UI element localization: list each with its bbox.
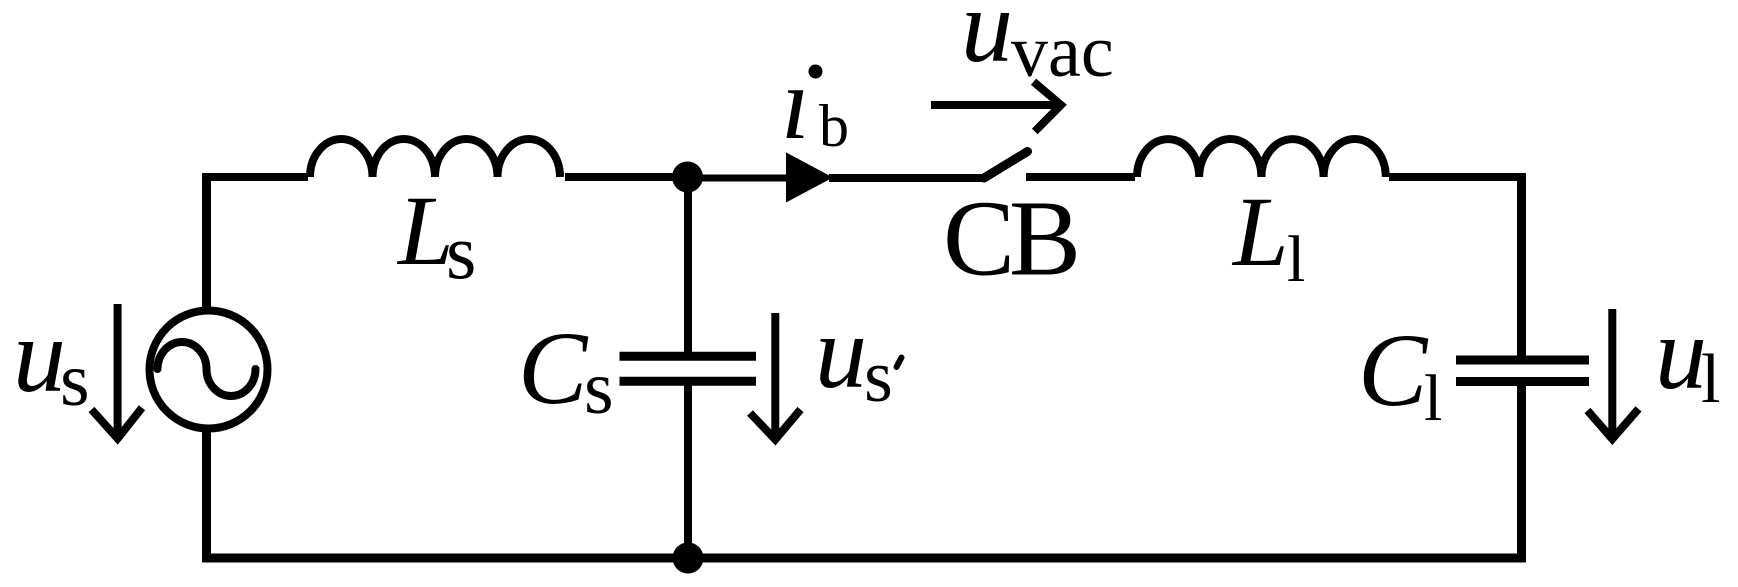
svg-text:u: u [13, 297, 66, 414]
wire from node to current arrow [687, 175, 790, 182]
svg-text:s: s [864, 336, 893, 418]
wire right vertical upper [1517, 173, 1526, 356]
wire current arrow to breaker [829, 174, 985, 182]
wire middle vertical upper [684, 177, 692, 356]
label C_l [1358, 313, 1442, 435]
node junction bottom [673, 543, 704, 574]
svg-text:l: l [1424, 362, 1442, 435]
label u_s' [815, 295, 902, 418]
arrow u_s [92, 304, 143, 439]
label i_b [781, 46, 849, 161]
arrow u_s' [750, 313, 801, 440]
current arrow i_b [786, 152, 833, 202]
svg-text:CB: CB [943, 180, 1076, 299]
wire right vertical lower [1517, 382, 1526, 562]
capacitor Cl [1456, 360, 1589, 382]
arrow u_l [1588, 309, 1639, 439]
wire left vertical lower [202, 432, 211, 562]
svg-text:u: u [961, 0, 1013, 84]
voltage source us circle [150, 311, 268, 429]
svg-text:L: L [396, 175, 454, 286]
inductor Ll [1137, 139, 1386, 177]
svg-text:l: l [1287, 223, 1305, 296]
svg-text:ı: ı [781, 46, 810, 161]
wire bottom [202, 554, 1526, 563]
svg-text:u: u [815, 295, 867, 410]
node junction top [672, 162, 703, 193]
circuit breaker CB blade [984, 152, 1028, 179]
inductor Ls [310, 139, 560, 177]
svg-text:C: C [1358, 313, 1429, 428]
wire left vertical upper [202, 177, 211, 307]
svg-text:C: C [518, 311, 589, 426]
label L_s [396, 175, 476, 295]
label u_s [13, 297, 90, 422]
svg-text:s: s [60, 338, 90, 422]
label C_s [518, 311, 614, 430]
label u_vac [961, 0, 1114, 93]
svg-text:L: L [1231, 176, 1289, 287]
voltage source sine symbol [158, 342, 256, 396]
label L_l [1231, 176, 1305, 296]
svg-text:s: s [584, 346, 614, 430]
svg-text:l: l [1701, 341, 1720, 418]
svg-text:s: s [446, 208, 476, 295]
wire right of breaker [1026, 173, 1135, 181]
wire top right [1389, 173, 1526, 181]
svg-text:b: b [819, 93, 849, 159]
label u_l [1655, 296, 1720, 418]
svg-text:vac: vac [1011, 11, 1114, 93]
wire top middle [565, 173, 690, 181]
arrow u_vac [931, 82, 1061, 132]
svg-text:u: u [1655, 296, 1707, 411]
wire top left horizontal [202, 173, 308, 181]
wire middle vertical lower [684, 382, 692, 560]
capacitor Cs [620, 356, 757, 381]
